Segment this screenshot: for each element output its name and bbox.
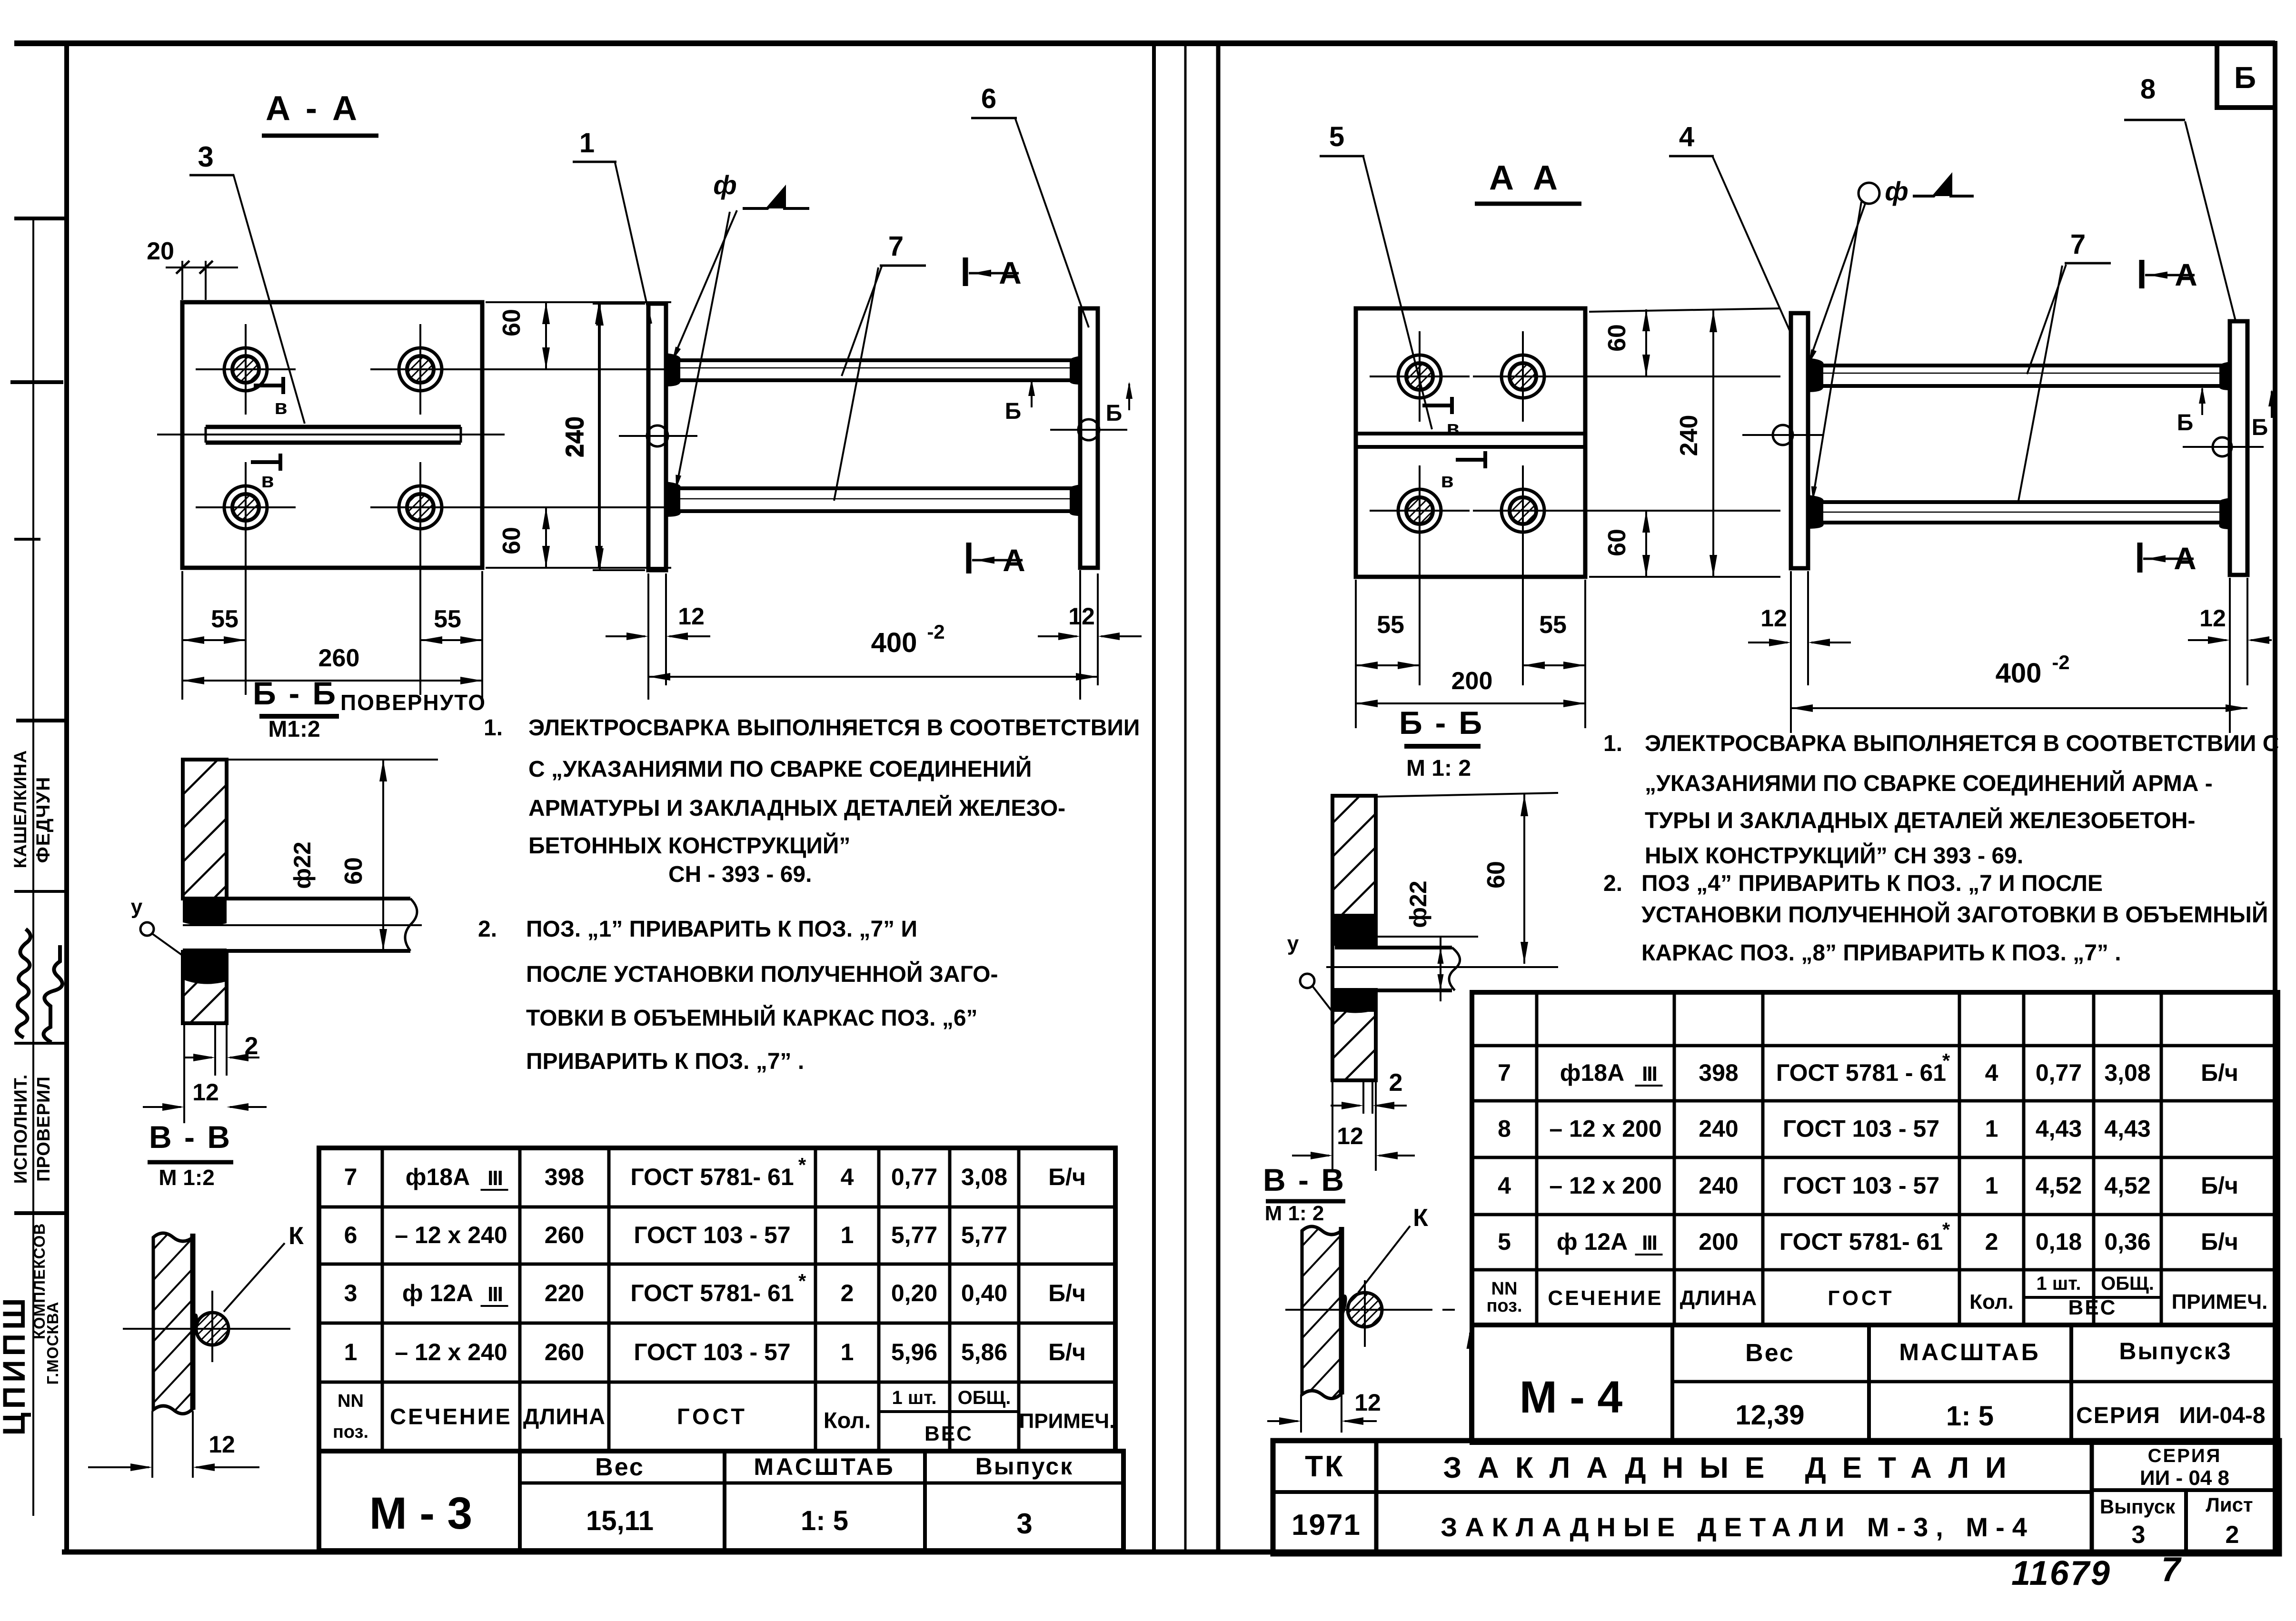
svg-text:СЕРИЯ: СЕРИЯ [2076,1403,2161,1428]
svg-text:4: 4 [1679,121,1694,152]
svg-text:1 шт.: 1 шт. [892,1387,937,1408]
svg-text:ТОВКИ В ОБЪЕМНЫЙ КАРКАС ПО: ТОВКИ В ОБЪЕМНЫЙ КАРКАС ПОЗ. „6” [526,1005,978,1031]
svg-text:III: III [487,1283,502,1306]
svg-text:7: 7 [2161,1551,2182,1589]
svg-text:НЫХ КОНСТРУКЦИЙ” СН 393 - 69: НЫХ КОНСТРУКЦИЙ” СН 393 - 69. [1645,842,2023,869]
svg-text:12: 12 [1354,1389,1381,1416]
svg-text:ГОСТ 5781- 61: ГОСТ 5781- 61 [630,1164,794,1190]
svg-text:ЭЛЕКТРОСВАРКА ВЫПОЛНЯЕТСЯ В: ЭЛЕКТРОСВАРКА ВЫПОЛНЯЕТСЯ В СООТВЕТСТВИИ… [1645,731,2279,756]
svg-text:ГОСТ: ГОСТ [677,1404,747,1429]
svg-text:ВЕС: ВЕС [2068,1296,2117,1319]
svg-text:– 12 х 200: – 12 х 200 [1549,1116,1661,1142]
svg-text:8: 8 [1498,1116,1511,1142]
svg-text:М1:2: М1:2 [268,717,320,742]
svg-text:в: в [274,395,287,419]
svg-text:4,52: 4,52 [2036,1172,2082,1199]
svg-text:ПРИВАРИТЬ К ПОЗ. „7” .: ПРИВАРИТЬ К ПОЗ. „7” . [526,1049,804,1074]
svg-text:3,08: 3,08 [2104,1059,2150,1086]
svg-text:200: 200 [1451,667,1493,695]
svg-text:1.: 1. [484,715,503,741]
svg-text:20: 20 [147,237,174,265]
svg-text:Г.МОСКВА: Г.МОСКВА [44,1302,61,1385]
svg-text:1: 1 [1985,1172,1998,1199]
svg-text:ф18А: ф18А [1560,1059,1624,1086]
svg-text:поз.: поз. [333,1422,368,1442]
svg-text:у: у [1287,932,1299,955]
svg-text:200: 200 [1699,1228,1738,1255]
svg-text:2: 2 [841,1280,854,1306]
svg-text:12: 12 [1760,605,1787,632]
svg-text:М 1: 2: М 1: 2 [1265,1202,1324,1225]
svg-text:240: 240 [562,416,589,458]
svg-text:Б/ч: Б/ч [2201,1059,2238,1086]
svg-text:4,43: 4,43 [2036,1116,2082,1142]
svg-text:11679: 11679 [2011,1554,2111,1592]
svg-text:Вес: Вес [1745,1339,1795,1367]
svg-text:Б: Б [1005,399,1022,424]
svg-text:12: 12 [678,603,705,630]
svg-text:60: 60 [1482,861,1510,889]
svg-text:260: 260 [545,1339,584,1365]
svg-text:1: 1 [841,1339,854,1365]
svg-text:ПОСЛЕ УСТАНОВКИ ПОЛУЧЕННОЙ: ПОСЛЕ УСТАНОВКИ ПОЛУЧЕННОЙ ЗАГО- [526,961,998,987]
svg-text:4,52: 4,52 [2104,1172,2150,1199]
svg-text:Выпуск: Выпуск [975,1453,1073,1480]
svg-text:0,77: 0,77 [891,1164,937,1190]
svg-text:Кол.: Кол. [1969,1290,2014,1314]
svg-text:ЗАКЛАДНЫЕ ДЕТАЛИ: ЗАКЛАДНЫЕ ДЕТАЛИ [1443,1452,2022,1484]
svg-text:в: в [261,469,274,492]
svg-text:ф 12А: ф 12А [402,1280,473,1306]
svg-text:ф22: ф22 [289,841,316,889]
svg-text:60: 60 [1603,529,1631,556]
svg-text:В - В: В - В [149,1119,232,1155]
svg-text:Б - Б: Б - Б [253,675,338,712]
svg-text:ТУРЫ И ЗАКЛАДНЫХ ДЕТАЛЕЙ ЖЕ: ТУРЫ И ЗАКЛАДНЫХ ДЕТАЛЕЙ ЖЕЛЕЗОБЕТОН- [1645,807,2196,833]
svg-text:*: * [1942,1049,1950,1072]
svg-text:5,77: 5,77 [891,1222,937,1248]
svg-text:5,77: 5,77 [961,1222,1007,1248]
svg-text:СЕЧЕНИЕ: СЕЧЕНИЕ [390,1404,512,1429]
svg-text:*: * [798,1270,806,1292]
svg-text:ЗАКЛАДНЫЕ ДЕТАЛИ М-3, М-4: ЗАКЛАДНЫЕ ДЕТАЛИ М-3, М-4 [1441,1512,2035,1542]
svg-text:МАСШТАБ: МАСШТАБ [1899,1339,2040,1365]
svg-text:ф22: ф22 [1405,880,1431,928]
svg-text:12,39: 12,39 [1735,1400,1804,1431]
svg-text:III: III [1642,1231,1657,1255]
svg-text:ПОЗ. „1” ПРИВАРИТЬ К ПОЗ.: ПОЗ. „1” ПРИВАРИТЬ К ПОЗ. „7” И [526,917,917,942]
svg-text:398: 398 [545,1164,584,1190]
svg-text:М - 4: М - 4 [1520,1372,1623,1423]
svg-text:4,43: 4,43 [2104,1116,2150,1142]
svg-text:0,40: 0,40 [961,1280,1007,1306]
svg-text:4: 4 [841,1164,854,1190]
svg-text:МАСШТАБ: МАСШТАБ [754,1453,895,1480]
svg-text:ПОВЕРНУТО: ПОВЕРНУТО [340,690,486,715]
svg-text:1 шт.: 1 шт. [2037,1273,2081,1294]
svg-text:ДЛИНА: ДЛИНА [523,1404,606,1429]
svg-text:5,96: 5,96 [891,1339,937,1365]
svg-text:„УКАЗАНИЯМИ ПО СВАРКЕ СОЕДИ: „УКАЗАНИЯМИ ПО СВАРКЕ СОЕДИНЕНИЙ АРМА - [1645,770,2213,796]
svg-text:240: 240 [1699,1116,1738,1142]
svg-text:БЕТОННЫХ КОНСТРУКЦИЙ”: БЕТОННЫХ КОНСТРУКЦИЙ” [528,832,850,859]
svg-text:ТК: ТК [1305,1450,1345,1483]
svg-text:А: А [2175,257,2197,292]
svg-text:– 12 х 240: – 12 х 240 [395,1339,507,1365]
svg-text:А: А [999,255,1022,290]
svg-text:0,36: 0,36 [2104,1228,2150,1255]
svg-text:ПРИМЕЧ.: ПРИМЕЧ. [2172,1290,2268,1314]
svg-text:С „УКАЗАНИЯМИ ПО СВАРКЕ СОЕ: С „УКАЗАНИЯМИ ПО СВАРКЕ СОЕДИНЕНИЙ [528,756,1032,782]
svg-text:СЕРИЯ: СЕРИЯ [2148,1445,2222,1466]
svg-text:4: 4 [1985,1059,1998,1086]
svg-text:КАШЕЛКИНА: КАШЕЛКИНА [10,750,30,869]
svg-text:55: 55 [211,605,239,633]
svg-text:Б: Б [2234,60,2256,95]
svg-text:2: 2 [1985,1228,1998,1255]
svg-text:Б/ч: Б/ч [1048,1164,1086,1190]
svg-text:у: у [131,895,143,919]
svg-text:400: 400 [1996,658,2042,689]
svg-text:ГОСТ 5781- 61: ГОСТ 5781- 61 [630,1280,794,1306]
svg-text:ГОСТ 103 - 57: ГОСТ 103 - 57 [1783,1116,1939,1142]
svg-text:12: 12 [1337,1123,1363,1149]
svg-text:1: 1 [579,128,595,158]
svg-text:А А: А А [1489,159,1562,197]
svg-text:Б/ч: Б/ч [2201,1172,2238,1199]
svg-text:1: 1 [841,1222,854,1248]
svg-text:3: 3 [344,1280,358,1306]
svg-text:СЕЧЕНИЕ: СЕЧЕНИЕ [1548,1286,1663,1310]
svg-text:В - В: В - В [1263,1162,1346,1197]
svg-text:ЭЛЕКТРОСВАРКА ВЫПОЛНЯЕТСЯ В: ЭЛЕКТРОСВАРКА ВЫПОЛНЯЕТСЯ В СООТВЕТСТВИИ [528,715,1140,741]
svg-text:ЦПИПШ: ЦПИПШ [0,1295,31,1436]
svg-text:1971: 1971 [1292,1509,1361,1542]
svg-text:ГОСТ 5781- 61: ГОСТ 5781- 61 [1779,1228,1943,1255]
svg-text:5: 5 [1498,1228,1511,1255]
svg-text:ФЕДЧУН: ФЕДЧУН [33,776,54,863]
svg-text:ПРОВЕРИЛ: ПРОВЕРИЛ [34,1076,54,1182]
svg-text:400: 400 [871,627,917,658]
svg-text:К: К [288,1222,304,1250]
svg-text:1: 1 [344,1339,358,1365]
svg-text:Кол.: Кол. [824,1408,871,1433]
svg-text:СН - 393 - 69.: СН - 393 - 69. [668,862,812,887]
svg-text:-2: -2 [927,621,944,643]
svg-text:3: 3 [198,141,213,173]
svg-text:ГОСТ 5781 - 61: ГОСТ 5781 - 61 [1776,1059,1946,1086]
svg-text:в: в [1441,469,1453,492]
svg-text:0,18: 0,18 [2036,1228,2082,1255]
svg-text:4: 4 [1498,1172,1511,1199]
svg-text:Вес: Вес [595,1453,645,1481]
svg-text:6: 6 [981,83,996,114]
svg-text:Выпуск: Выпуск [2100,1495,2176,1518]
svg-text:ф: ф [1885,176,1908,206]
svg-text:Б/ч: Б/ч [1048,1280,1086,1306]
svg-text:– 12 х 240: – 12 х 240 [395,1222,507,1248]
svg-text:ВЕС: ВЕС [924,1422,973,1445]
svg-text:3,08: 3,08 [961,1164,1007,1190]
svg-text:60: 60 [498,527,526,554]
svg-text:в: в [1446,416,1459,440]
svg-text:ИИ - 04 8: ИИ - 04 8 [2140,1466,2229,1490]
svg-text:220: 220 [545,1280,584,1306]
svg-text:1: 5: 1: 5 [1946,1401,1994,1432]
svg-text:2: 2 [1389,1069,1403,1097]
svg-text:ОБЩ.: ОБЩ. [2101,1273,2154,1294]
svg-text:240: 240 [1699,1172,1738,1199]
svg-text:12: 12 [1068,603,1095,630]
svg-text:2.: 2. [478,917,497,942]
svg-text:Б/ч: Б/ч [1048,1339,1086,1365]
svg-text:Б/ч: Б/ч [2201,1228,2238,1255]
svg-text:5,86: 5,86 [961,1339,1007,1365]
svg-text:М 1:2: М 1:2 [159,1165,215,1190]
svg-text:12: 12 [2199,605,2226,632]
svg-text:Лист: Лист [2206,1493,2253,1516]
svg-text:М - 3: М - 3 [369,1488,472,1539]
svg-text:ИСПОЛНИТ.: ИСПОЛНИТ. [11,1074,31,1184]
svg-text:1: 5: 1: 5 [801,1505,848,1536]
svg-text:ПОЗ „4” ПРИВАРИТЬ К ПОЗ. „: ПОЗ „4” ПРИВАРИТЬ К ПОЗ. „7 И ПОСЛЕ [1641,871,2103,896]
svg-text:Б: Б [1106,401,1123,426]
svg-text:М 1: 2: М 1: 2 [1406,756,1471,781]
svg-text:2: 2 [2226,1521,2239,1549]
svg-text:*: * [1942,1218,1950,1241]
svg-text:III: III [1642,1062,1657,1086]
svg-text:7: 7 [344,1164,358,1190]
svg-text:7: 7 [1498,1059,1511,1086]
svg-text:0,20: 0,20 [891,1280,937,1306]
svg-text:ИИ-04-8: ИИ-04-8 [2179,1403,2265,1428]
svg-text:7: 7 [2070,229,2086,260]
svg-text:3: 3 [2132,1521,2146,1549]
svg-text:ф: ф [713,170,737,200]
svg-text:ПРИМЕЧ.: ПРИМЕЧ. [1019,1410,1115,1433]
svg-text:6: 6 [344,1222,358,1248]
svg-text:2.: 2. [1603,871,1622,896]
svg-text:ГОСТ 103 - 57: ГОСТ 103 - 57 [1783,1172,1939,1199]
svg-text:УСТАНОВКИ ПОЛУЧЕННОЙ ЗАГОТОВ: УСТАНОВКИ ПОЛУЧЕННОЙ ЗАГОТОВКИ В ОБЪЕМНЫ… [1641,901,2268,928]
svg-text:5: 5 [1329,121,1344,152]
svg-text:ГОСТ: ГОСТ [1828,1286,1894,1310]
svg-text:*: * [798,1154,806,1176]
svg-text:ДЛИНА: ДЛИНА [1680,1286,1757,1310]
svg-text:К: К [1413,1204,1428,1232]
svg-text:ГОСТ 103 - 57: ГОСТ 103 - 57 [634,1222,790,1248]
svg-text:240: 240 [1675,415,1703,456]
svg-text:– 12 х 200: – 12 х 200 [1549,1172,1661,1199]
svg-text:260: 260 [545,1222,584,1248]
svg-text:55: 55 [434,605,461,633]
svg-text:12: 12 [209,1431,235,1458]
svg-text:Б - Б: Б - Б [1399,705,1484,741]
svg-text:-2: -2 [2052,651,2069,673]
svg-text:8: 8 [2140,74,2156,105]
svg-text:260: 260 [318,644,360,672]
svg-text:60: 60 [498,309,526,336]
svg-text:1: 1 [1985,1116,1998,1142]
svg-text:ф 12А: ф 12А [1557,1228,1628,1255]
svg-text:ГОСТ 103 - 57: ГОСТ 103 - 57 [634,1339,790,1365]
svg-text:III: III [487,1166,502,1190]
svg-text:Выпуск3: Выпуск3 [2119,1338,2232,1364]
svg-text:60: 60 [340,857,368,885]
svg-text:3: 3 [1016,1508,1032,1540]
svg-text:АРМАТУРЫ И ЗАКЛАДНЫХ ДЕТАЛЕЙ: АРМАТУРЫ И ЗАКЛАДНЫХ ДЕТАЛЕЙ ЖЕЛЕЗО- [528,795,1065,821]
svg-text:1.: 1. [1603,731,1622,756]
svg-text:поз.: поз. [1486,1296,1522,1316]
svg-text:0,77: 0,77 [2036,1059,2082,1086]
svg-text:55: 55 [1377,611,1404,639]
svg-text:398: 398 [1699,1059,1738,1086]
svg-text:12: 12 [192,1079,219,1106]
svg-text:КАРКАС ПОЗ. „8” ПРИВАРИТЬ К: КАРКАС ПОЗ. „8” ПРИВАРИТЬ К ПОЗ. „7” . [1641,940,2121,966]
svg-text:Б: Б [2252,415,2268,440]
svg-text:15,11: 15,11 [586,1505,654,1536]
svg-text:60: 60 [1603,324,1631,352]
svg-text:NN: NN [338,1391,364,1411]
svg-text:ОБЩ.: ОБЩ. [958,1387,1011,1408]
svg-text:А - А: А - А [266,89,360,128]
svg-text:55: 55 [1539,611,1567,639]
svg-text:А: А [1003,543,1025,578]
svg-text:ф18А: ф18А [406,1164,470,1190]
svg-text:7: 7 [888,231,904,262]
svg-text:А: А [2174,541,2197,576]
svg-text:Б: Б [2177,410,2194,435]
